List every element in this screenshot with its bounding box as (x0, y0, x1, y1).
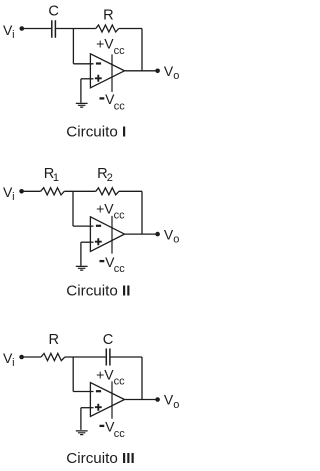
wire to ground (circuit II) (80, 242, 82, 266)
svg-text:Circuito III: Circuito III (66, 450, 134, 467)
node Vi input terminal dot (circuit II) (19, 189, 24, 194)
svg-text:+V: +V (96, 36, 114, 52)
power supply rail line through U3 (111, 381, 113, 418)
wire R1 to R2 / node B (64, 190, 96, 192)
svg-text:cc: cc (114, 376, 126, 388)
svg-text:o: o (173, 70, 179, 82)
node Vo output terminal dot (circuit III) (155, 397, 160, 402)
wire Vi to resistor R1 (22, 190, 41, 192)
wire node A drop to inverting input (72, 29, 74, 64)
wire op-amp output to Vo (125, 233, 158, 235)
wire node B drop to inverting input (72, 191, 74, 226)
label Vo (circuit I) (164, 63, 179, 82)
label Vi (circuit II) (3, 184, 15, 203)
wire resistor R2 to feedback corner (119, 190, 142, 192)
minus sign inverting input U1 (96, 62, 101, 64)
wire feedback drop to output node (141, 191, 143, 234)
resistor R (series input, circuit III) (41, 353, 65, 360)
node Vi input terminal dot (circuit I) (20, 26, 25, 31)
power supply rail line through U1 (111, 54, 113, 92)
wire op-amp output to Vo (125, 399, 158, 401)
label Vo (circuit II) (164, 226, 179, 245)
node Vo output terminal dot (circuit II) (155, 232, 160, 237)
plus sign non-inverting input U1 (95, 75, 102, 82)
svg-text:C: C (103, 332, 114, 348)
wire capacitor to resistor R / node A (56, 28, 96, 30)
op-amp U2 (circuit II) (90, 217, 124, 252)
op-amp U1 (circuit I) (90, 54, 124, 88)
wire node D drop to inverting input (72, 357, 74, 392)
svg-text:o: o (173, 234, 179, 246)
label +Vcc (circuit II) (96, 200, 125, 221)
svg-text:cc: cc (114, 100, 126, 112)
value label C (103, 332, 114, 348)
svg-text:+V: +V (96, 200, 114, 216)
wire Vi to capacitor C (22, 28, 51, 30)
caption Circuito II (66, 283, 130, 300)
svg-text:cc: cc (114, 428, 126, 440)
label -Vcc (circuit I) (105, 91, 125, 112)
label -Vcc (circuit III) (105, 419, 125, 440)
wire op-amp output to Vo (125, 70, 158, 72)
svg-text:1: 1 (53, 172, 59, 184)
wire to ground (circuit I) (80, 79, 82, 103)
svg-text:cc: cc (114, 45, 126, 57)
wire to inverting input of U3 (73, 391, 93, 393)
label -Vcc (circuit II) (105, 254, 125, 275)
svg-text:C: C (48, 3, 59, 19)
minus sign inverting input U3 (96, 390, 101, 392)
svg-text:R: R (48, 332, 59, 348)
capacitor C (feedback, circuit III) (106, 349, 110, 366)
wire feedback drop to output node (141, 357, 143, 400)
wire resistor R to feedback corner (119, 28, 142, 30)
wire R to capacitor C / node D (65, 356, 106, 358)
wire non-inverting input (81, 78, 94, 80)
node Vi input terminal dot (circuit III) (19, 355, 24, 360)
resistor R (feedback, circuit I) (96, 25, 119, 32)
value label R2 (97, 166, 113, 184)
ground symbol (circuit III) (76, 431, 88, 435)
ground symbol (circuit II) (76, 266, 88, 270)
svg-text:i: i (12, 191, 14, 203)
plus sign non-inverting input U3 (95, 404, 102, 411)
svg-text:i: i (12, 29, 14, 41)
value label C (48, 3, 59, 19)
wire non-inverting input (81, 241, 94, 243)
caption Circuito III (66, 450, 134, 467)
svg-text:i: i (12, 357, 14, 369)
value label R (48, 332, 59, 348)
caption Circuito I (66, 123, 126, 140)
minus sign inverting input U2 (96, 225, 101, 227)
wire Vi to resistor R (22, 356, 41, 358)
capacitor C (series input, circuit I) (52, 20, 56, 38)
label +Vcc (circuit III) (96, 366, 125, 387)
op-amp U3 (circuit III) (90, 383, 124, 417)
svg-text:o: o (173, 399, 179, 411)
value label R1 (44, 166, 59, 184)
label +Vcc (circuit I) (96, 36, 125, 57)
svg-text:cc: cc (114, 210, 126, 222)
plus sign non-inverting input U2 (95, 238, 102, 245)
wire capacitor to feedback corner (111, 356, 142, 358)
value label R (103, 7, 114, 23)
label Vi (circuit III) (3, 350, 15, 369)
wire non-inverting input (81, 407, 94, 409)
svg-text:2: 2 (107, 172, 113, 184)
wire feedback drop to output node (141, 29, 143, 71)
svg-text:Circuito II: Circuito II (66, 283, 130, 300)
wire to inverting input of U1 (73, 63, 93, 65)
wire to inverting input of U2 (73, 225, 94, 227)
svg-text:+V: +V (96, 366, 114, 382)
resistor R1 (series input, circuit II) (41, 188, 65, 195)
label Vi (circuit I) (3, 22, 15, 41)
ground symbol (circuit I) (76, 103, 88, 107)
svg-text:R: R (103, 7, 114, 23)
svg-text:cc: cc (114, 263, 126, 275)
power supply rail line through U2 (111, 216, 113, 254)
resistor R2 (feedback, circuit II) (96, 188, 119, 195)
label Vo (circuit III) (164, 392, 179, 411)
wire to ground (circuit III) (80, 408, 82, 430)
svg-text:Circuito I: Circuito I (66, 123, 126, 140)
node Vo output terminal dot (circuit I) (155, 69, 160, 74)
